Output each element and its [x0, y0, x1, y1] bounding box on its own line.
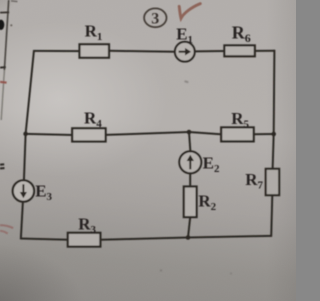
node left middle junction [23, 132, 28, 137]
faint pencil dash near E1 [185, 81, 189, 82]
label E1 [176, 24, 193, 46]
label E2 [203, 153, 220, 175]
wire left vertical upper segment [26, 50, 34, 134]
wire bottom-left corner to R3 [21, 239, 69, 240]
margin tick row line top [0, 11, 9, 13]
label R7 [245, 170, 263, 192]
margin red squiggle lower [0, 231, 8, 234]
resistor R5 [221, 127, 254, 141]
wire left vertical to E3 [24, 134, 26, 181]
EMF source E2 [179, 151, 201, 173]
label R5 [231, 109, 249, 131]
label R2 [198, 192, 216, 214]
wire R7 down to bottom-right corner [271, 195, 272, 237]
margin ink blob [0, 20, 4, 30]
resistor R2 [184, 187, 197, 218]
wire node B to R5 [189, 132, 222, 134]
wire bottom node to bottom-right corner [188, 236, 271, 238]
problem number circle 3 [144, 8, 166, 27]
wire R1 to E1 [109, 50, 175, 53]
wire E3 to bottom-left corner [21, 202, 23, 240]
label R3 [78, 215, 96, 237]
label E3 [35, 181, 52, 203]
margin red tick [0, 81, 7, 84]
label R4 [84, 108, 102, 129]
wire E2 to R2 [189, 173, 191, 187]
wire E2 branch from node B down to E2 [189, 132, 190, 151]
label R1 [85, 22, 103, 44]
resistor R1 [80, 44, 110, 57]
resistor R4 [72, 128, 105, 141]
margin dark tick middle [0, 66, 6, 69]
margin equals mark [0, 164, 5, 168]
resistor R7 [266, 169, 280, 195]
wire right vertical upper segment [273, 50, 276, 134]
label R6 [232, 22, 251, 45]
wire E1 to R6 [195, 50, 226, 52]
wire R5 to right middle junction [254, 133, 274, 135]
wire R2 down to bottom node [188, 217, 190, 237]
red grading checkmark [179, 4, 200, 19]
margin speck top edge [11, 0, 18, 3]
wire right vertical R6 corner to R7 [273, 134, 274, 170]
wire R6 to top-right corner [255, 50, 275, 52]
margin speck [10, 24, 12, 26]
resistor R6 [224, 45, 254, 56]
margin red squiggle upper [0, 225, 13, 228]
wire R4 to node B [106, 132, 189, 135]
faint speck lower middle [160, 270, 162, 272]
faint speck lower right [230, 273, 232, 275]
node right middle junction [271, 132, 276, 137]
node bottom junction [186, 235, 191, 240]
EMF source E3 [13, 180, 34, 201]
EMF source E1 [175, 42, 195, 62]
wire R3 to bottom node [100, 238, 188, 240]
page margin rule line [1, 0, 9, 120]
node B junction of E2 branch on middle wire [187, 130, 192, 135]
resistor R3 [68, 233, 101, 247]
wire middle left to R4 [26, 134, 74, 135]
wire top-left corner to R1 [34, 50, 81, 52]
